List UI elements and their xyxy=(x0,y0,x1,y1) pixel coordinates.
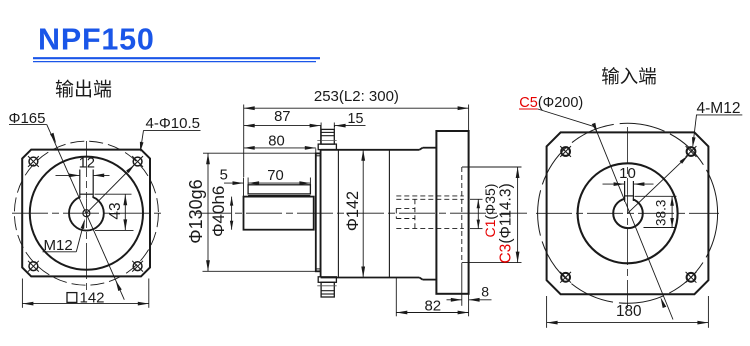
middle view input flange xyxy=(436,131,468,294)
dimension ph40h6 xyxy=(209,186,233,237)
dimension 87 xyxy=(244,109,321,145)
svg-text:180: 180 xyxy=(616,303,642,320)
middle view clamp boss top xyxy=(317,123,336,150)
svg-text:80: 80 xyxy=(268,134,284,150)
svg-text:8: 8 xyxy=(481,284,489,300)
dimension 38.3 xyxy=(635,196,677,227)
middle view body joint line 2 xyxy=(388,150,390,278)
middle view body joint line 1 xyxy=(337,150,339,278)
dimension 70 key length xyxy=(244,168,311,196)
left view bolt circle dashed ph165 xyxy=(14,141,158,285)
right view vertical centerline xyxy=(627,127,629,308)
svg-text:43: 43 xyxy=(107,202,124,219)
middle view clamp boss bottom xyxy=(317,277,336,297)
middle view hidden inner bore top xyxy=(396,207,415,209)
left view corner hole bottom-left xyxy=(28,261,39,272)
svg-text:38.3: 38.3 xyxy=(654,200,669,226)
svg-text:12: 12 xyxy=(79,155,95,171)
right view flange square xyxy=(547,132,709,294)
right view keyway notch xyxy=(625,181,634,202)
dimension C3 ph114.3 xyxy=(462,167,522,264)
title NPF150 xyxy=(38,23,155,57)
svg-text:87: 87 xyxy=(274,109,290,125)
dimension ph130g6 xyxy=(186,153,316,271)
dimension 82 xyxy=(396,278,468,317)
right view corner hole bottom-left xyxy=(560,272,571,283)
svg-text:15: 15 xyxy=(348,111,364,127)
left view keyway notch xyxy=(80,170,93,199)
label 4-M12 with leader xyxy=(628,100,743,214)
dimension 43 key height xyxy=(95,194,134,230)
left view flange square xyxy=(22,150,150,277)
svg-text:M12: M12 xyxy=(44,237,73,254)
dimension square-142 xyxy=(22,279,148,308)
dimension 10 keyway width xyxy=(603,165,654,186)
dimension 8 xyxy=(447,263,492,306)
middle view hidden bore keyway line xyxy=(396,195,464,197)
dimension 80 xyxy=(244,134,316,153)
svg-text:Φ40h6: Φ40h6 xyxy=(209,186,228,237)
right view pilot circle xyxy=(578,163,678,263)
middle view hidden bore top xyxy=(396,198,464,200)
label 4-ph10.5 with leader xyxy=(86,115,200,213)
right view corner hole top-left xyxy=(560,146,571,157)
svg-text:C3(Φ114.3): C3(Φ114.3) xyxy=(497,183,514,263)
label C5 ph200 with leader xyxy=(519,95,673,320)
right view shaft hole ph35 xyxy=(613,199,643,229)
left view vertical centerline xyxy=(85,141,87,290)
middle view shaft key xyxy=(248,185,310,196)
right view bolt circle dashed ph200 xyxy=(538,123,718,303)
svg-text:70: 70 xyxy=(267,168,283,184)
label output-end 输出端 xyxy=(55,79,112,101)
dimension 12 keyway width xyxy=(56,155,110,177)
svg-text:82: 82 xyxy=(424,298,441,315)
middle view hidden pilot face C3 xyxy=(461,167,463,263)
svg-text:NPF150: NPF150 xyxy=(38,23,155,57)
left view corner hole top-left xyxy=(28,156,39,167)
left view corner hole bottom-right xyxy=(132,261,143,272)
left view corner hole top-right xyxy=(132,156,143,167)
label ph165 with diameter leader xyxy=(9,110,125,300)
dimension ph142 xyxy=(344,150,365,278)
middle view output shaft xyxy=(244,197,314,230)
title underline double xyxy=(33,58,320,61)
left view horizontal centerline xyxy=(12,212,164,214)
left view center circle xyxy=(83,210,90,217)
svg-text:输出端: 输出端 xyxy=(55,79,112,101)
svg-text:输入端: 输入端 xyxy=(601,66,657,87)
middle view hidden bore end xyxy=(395,208,397,218)
dimension 180 xyxy=(547,296,709,328)
label M12 with leader xyxy=(43,219,85,254)
dimension 253 overall length xyxy=(244,88,469,177)
svg-text:Φ130g6: Φ130g6 xyxy=(186,179,206,243)
right view corner hole top-right xyxy=(686,146,697,157)
svg-text:142: 142 xyxy=(80,289,105,306)
dimension C1 ph35 xyxy=(470,184,498,238)
dimension 5 xyxy=(220,167,244,185)
middle view hidden bore bottom xyxy=(396,228,464,230)
middle view hidden bore step xyxy=(414,199,416,228)
svg-text:C1(Φ35): C1(Φ35) xyxy=(482,184,498,238)
right view corner hole bottom-right xyxy=(686,272,697,283)
svg-text:253(L2: 300): 253(L2: 300) xyxy=(314,88,399,105)
svg-text:Φ142: Φ142 xyxy=(344,191,362,231)
middle view pilot plate ph130g6 xyxy=(316,153,321,271)
middle view hidden inner bore bottom xyxy=(396,218,415,220)
dimension 15 xyxy=(335,111,366,128)
left view pilot circle ph130 xyxy=(30,157,143,270)
label input-end 输入端 xyxy=(601,66,657,87)
svg-text:4-M12: 4-M12 xyxy=(697,100,741,117)
svg-text:10: 10 xyxy=(619,165,636,182)
left view shaft circle ph40 xyxy=(69,196,104,231)
svg-text:4-Φ10.5: 4-Φ10.5 xyxy=(146,115,201,132)
middle view horizontal centerline xyxy=(195,212,527,214)
right view horizontal centerline xyxy=(536,212,719,214)
svg-text:5: 5 xyxy=(220,167,228,183)
middle view body outline xyxy=(321,148,437,280)
